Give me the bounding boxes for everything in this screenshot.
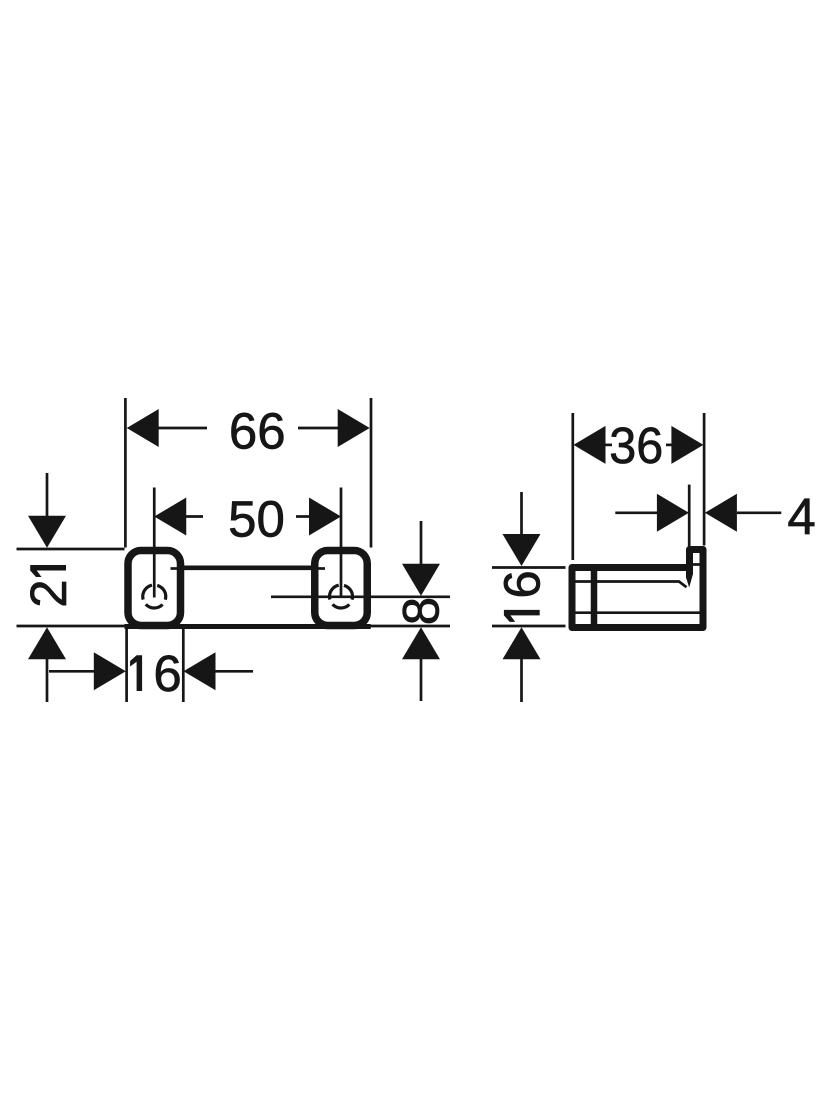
dim 66 line left (157, 427, 207, 430)
dim 16 ext right (182, 629, 185, 702)
dim 66 arrow left (127, 409, 159, 447)
dim 8 arrow bottom (402, 627, 440, 659)
dim 16 ext left (125, 629, 128, 702)
svg-text:50: 50 (228, 490, 285, 547)
side view outline (572, 550, 703, 628)
dim 16 side arrow bottom (503, 627, 541, 659)
dim 16 line left (49, 670, 94, 673)
dim 66 arrow right (338, 409, 370, 447)
dim 66 ext line left (124, 398, 127, 548)
svg-text:8: 8 (393, 597, 450, 625)
dim 4 arrow right (705, 494, 737, 532)
centerline left plate (153, 488, 156, 598)
side view notch line (693, 563, 700, 566)
side view inner line lower (576, 611, 700, 614)
svg-text:36: 36 (609, 417, 663, 474)
dim 50 line left (186, 515, 203, 518)
side view wall plate inner edge (591, 565, 598, 631)
dim 4 line left (615, 511, 657, 514)
dim 21 arrow top (28, 516, 66, 548)
dim 16 line right (216, 670, 254, 673)
dim 4 line right (737, 511, 781, 514)
side view inner line upper (576, 582, 687, 588)
dim 21 ext top (17, 548, 125, 551)
dim 36 line right (666, 444, 672, 447)
dim 50 line right (296, 515, 309, 518)
dim 4 ext left (688, 485, 691, 547)
dim 21 lower line (46, 659, 49, 702)
dim 66 line right (298, 427, 338, 430)
dim 36 line left (604, 444, 612, 447)
dim 21 upper line (46, 473, 49, 516)
svg-text:4: 4 (787, 488, 815, 545)
svg-text:6: 6 (494, 570, 551, 598)
left mounting plate (128, 551, 181, 626)
dim 4 arrow left (657, 494, 689, 532)
centerline right plate (340, 488, 343, 598)
dim 36 arrow left (574, 426, 606, 464)
dim 8 lower line (420, 659, 423, 701)
dim 50 arrow left (154, 498, 186, 536)
dim 8 upper line (420, 521, 423, 564)
bar top edge (184, 565, 311, 570)
dim 16 side ext bottom (492, 625, 566, 628)
bar top tick left (171, 567, 185, 570)
dim 21 label (20, 565, 77, 608)
dim 66 ext line right (370, 398, 373, 548)
dim 36 ext right (703, 413, 706, 546)
dim 16 side arrow top (503, 534, 541, 566)
wire bottom baseline thin (17, 625, 451, 628)
dim 16 arrow right (184, 652, 216, 690)
dim 50 arrow right (309, 498, 341, 536)
dim 16 side ext top (492, 566, 566, 569)
svg-text:66: 66 (229, 402, 286, 459)
side view lip beak (686, 563, 693, 588)
dim 16 side upper line (520, 492, 523, 535)
dim 36 ext left (571, 413, 574, 560)
dim 16 label (130, 645, 182, 702)
dim 21 arrow bottom (28, 627, 66, 659)
dim 16 side label (494, 570, 551, 622)
svg-text:6: 6 (153, 645, 181, 702)
bar bottom edge (125, 624, 371, 629)
dim 8 ext top (271, 595, 450, 598)
right mounting plate (315, 551, 368, 626)
dim 8 arrow top (402, 564, 440, 596)
bar top tick right (311, 567, 325, 570)
svg-text:2: 2 (20, 579, 77, 607)
screw symbol left (143, 585, 166, 608)
dim 16 side lower line (520, 659, 523, 702)
screw symbol right (330, 585, 353, 608)
dim 36 arrow right (671, 426, 703, 464)
dim 16 arrow left (94, 652, 126, 690)
